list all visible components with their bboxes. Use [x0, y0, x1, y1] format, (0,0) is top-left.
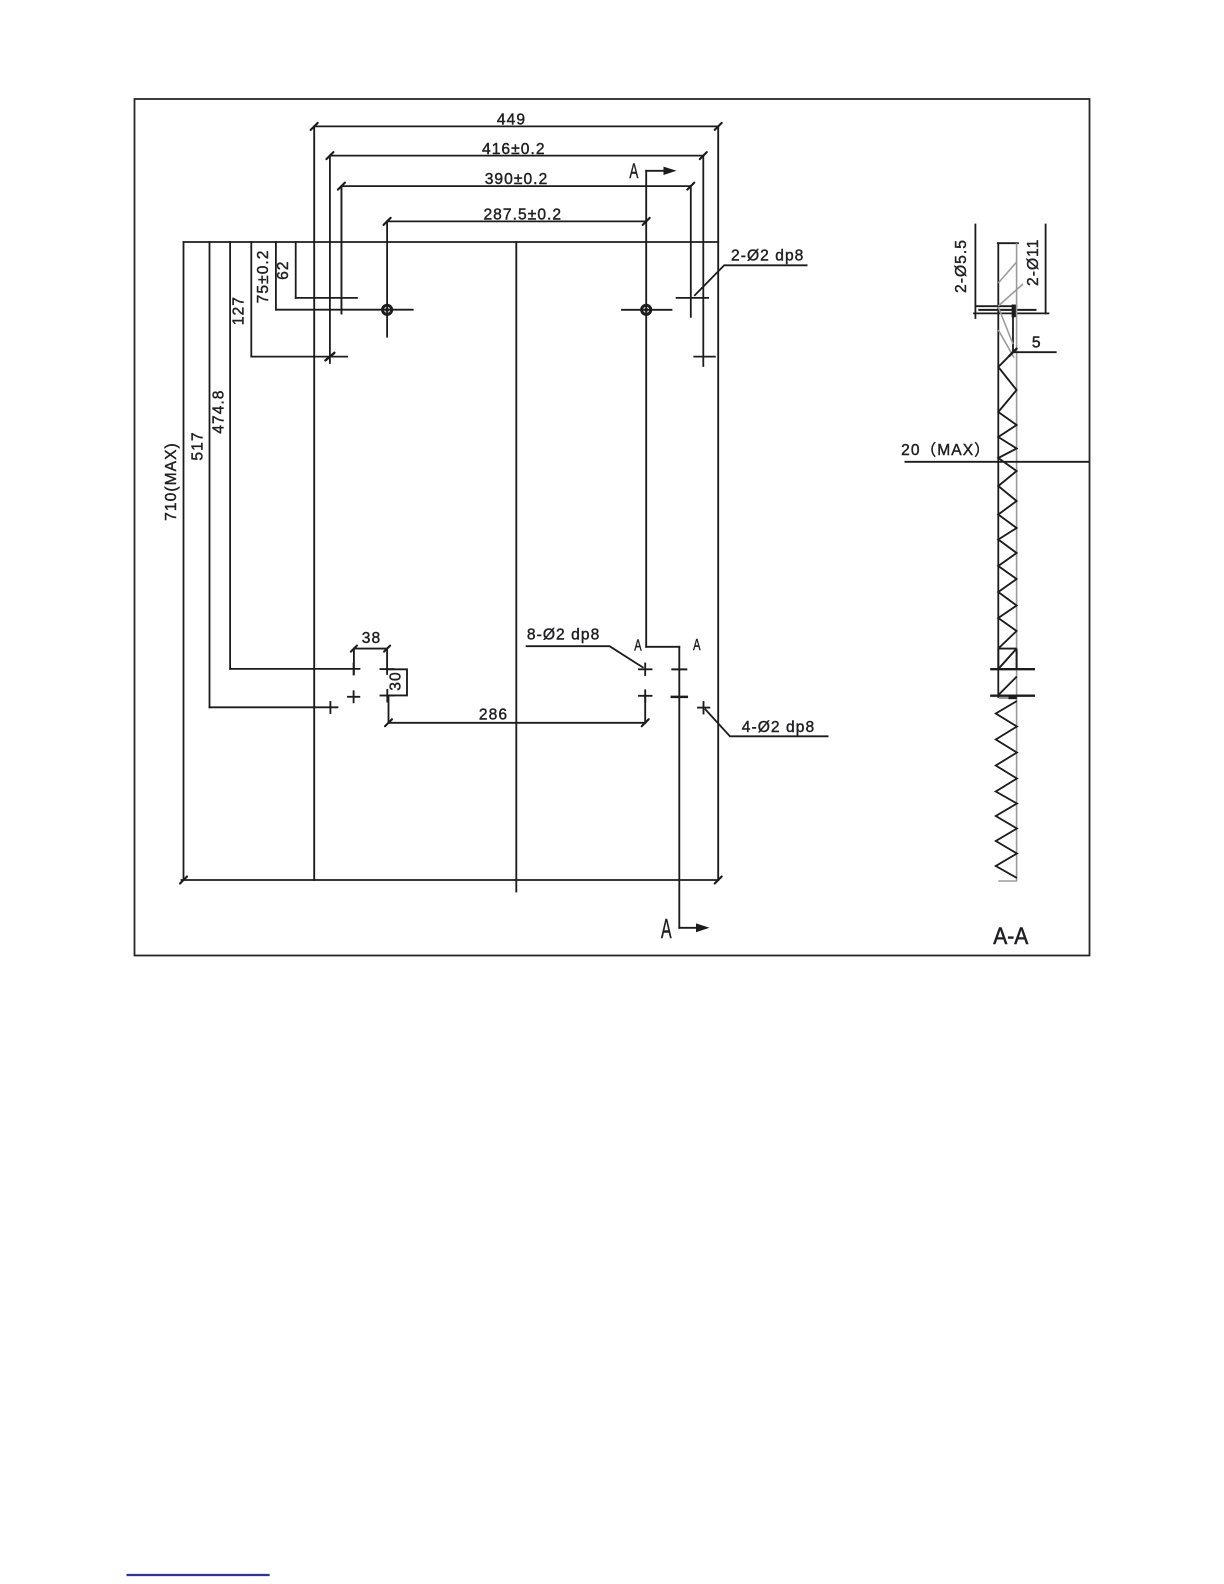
dark bar below lower hole row — [1009, 696, 1017, 699]
part right edge + 449 extension — [717, 126, 719, 880]
section line bottom arrow stem — [679, 927, 701, 929]
right hole crosshair horizontal — [622, 309, 672, 311]
svg-text:20（MAX）: 20（MAX） — [901, 442, 991, 459]
tick 38 left — [351, 646, 357, 652]
tick 449 right — [715, 123, 722, 130]
block right edge — [1016, 649, 1018, 670]
leader 8-Ø2dp8 — [526, 646, 644, 668]
section line jog — [646, 646, 679, 648]
svg-text:2-Ø11: 2-Ø11 — [1025, 239, 1042, 286]
dim 449 line — [314, 125, 718, 127]
cross hole cluster top-left vertical arm — [353, 664, 355, 675]
section line lower vertical — [678, 647, 680, 928]
hole right center dot — [644, 308, 648, 312]
plate bottom cap gray — [998, 880, 1017, 882]
dim 474.8 line — [229, 242, 231, 669]
dim 390 line — [341, 185, 690, 187]
hole cross 416-right horizontal arm — [694, 356, 715, 358]
cross on section line lower — [672, 696, 687, 699]
svg-text:2-Ø2 dp8: 2-Ø2 dp8 — [731, 247, 804, 264]
dim 20(MAX) line — [905, 461, 1090, 463]
plate top cap — [998, 242, 1018, 244]
block left edge — [997, 649, 999, 670]
svg-text:4-Ø2 dp8: 4-Ø2 dp8 — [742, 719, 815, 736]
dim 287.5 line — [387, 220, 646, 222]
tick 416 right — [700, 152, 707, 159]
tick bottom-right corner — [715, 877, 722, 884]
tick 390 right — [687, 183, 694, 190]
hole cross 390-left — [340, 186, 342, 313]
cross hole 4dp8 right — [703, 702, 705, 714]
svg-text:286: 286 — [479, 707, 508, 724]
tick at 416/127 hole — [325, 353, 334, 361]
dim 2-Ø11 extension — [1045, 225, 1047, 314]
svg-text:287.5±0.2: 287.5±0.2 — [483, 206, 562, 223]
svg-text:416±0.2: 416±0.2 — [482, 141, 546, 158]
countersunk hole left circle — [383, 305, 392, 314]
dim 2-Ø5.5 extension — [974, 225, 976, 319]
dim 390 left extension — [340, 186, 342, 313]
dim 710(MAX) line — [183, 242, 185, 880]
svg-text:A: A — [693, 637, 701, 654]
tick 449 left — [311, 123, 318, 130]
svg-text:62: 62 — [275, 260, 292, 279]
svg-text:390±0.2: 390±0.2 — [485, 171, 549, 188]
countersink gray diagonal 2 — [998, 262, 1016, 283]
dim 62 connector — [296, 297, 357, 299]
part top edge — [184, 241, 719, 243]
dim 62 line — [295, 242, 297, 298]
dim 75 line — [275, 242, 277, 310]
dim 517 line — [209, 242, 211, 707]
svg-text:5: 5 — [1032, 335, 1042, 352]
svg-text:2-Ø5.5: 2-Ø5.5 — [953, 239, 970, 293]
fastener dark square — [1012, 305, 1017, 318]
svg-text:449: 449 — [497, 112, 526, 129]
tick 390 left — [338, 183, 345, 190]
gray bar left part — [999, 697, 1009, 699]
upper zigzag hatch — [998, 352, 1016, 648]
hole left center dot — [385, 308, 389, 312]
svg-text:127: 127 — [231, 296, 248, 325]
svg-text:75±0.2: 75±0.2 — [255, 249, 272, 303]
svg-text:517: 517 — [190, 431, 207, 460]
countersink gray diagonal 1 — [998, 284, 1023, 306]
dim 286 left extension — [388, 696, 390, 723]
footer blue line — [127, 1574, 270, 1576]
dim 286 line — [389, 722, 646, 724]
dim 30 bracket — [387, 669, 407, 695]
cross hole cluster top-right horizontal arm — [381, 668, 394, 670]
countersunk hole right circle — [642, 305, 651, 314]
tick 287.5 right — [643, 218, 650, 225]
cross hole mid-right bottom horizontal arm — [639, 695, 652, 697]
countersink line A — [975, 305, 1016, 307]
leader 2-Ø2dp8 — [694, 265, 807, 296]
dim 416 right extension — [702, 156, 704, 366]
svg-text:A-A: A-A — [993, 923, 1028, 950]
top arrow head — [664, 167, 677, 175]
section line upper vertical — [645, 171, 647, 647]
tick 286 left — [385, 719, 392, 726]
leader 4-Ø2dp8 — [705, 709, 829, 736]
svg-text:30: 30 — [387, 671, 404, 690]
dim 416 line — [330, 155, 703, 157]
inner hole wall vertical — [1012, 317, 1014, 352]
tick 287.5 left — [384, 218, 391, 225]
plate right edge gray — [1016, 243, 1018, 881]
svg-text:A: A — [634, 637, 642, 654]
cross hole cluster bottom-left — [353, 691, 355, 702]
block diagonal lower — [998, 677, 1016, 696]
svg-text:A: A — [661, 913, 672, 944]
part left edge + 449 extension — [313, 126, 315, 880]
svg-text:38: 38 — [362, 630, 381, 647]
tick 5 dim — [1010, 349, 1017, 356]
dim 390 right extension — [690, 186, 692, 317]
dim 416 left extension — [329, 156, 331, 363]
svg-text:474.8: 474.8 — [210, 389, 227, 433]
dim 38 bracket — [354, 649, 387, 674]
vertical centerline — [515, 242, 517, 892]
svg-text:710(MAX): 710(MAX) — [163, 442, 180, 521]
plate left edge — [997, 243, 999, 697]
svg-text:A: A — [629, 160, 638, 183]
svg-text:8-Ø2 dp8: 8-Ø2 dp8 — [527, 627, 600, 644]
tick 286 right — [642, 719, 649, 726]
block top line — [998, 648, 1016, 650]
countersink line B — [979, 309, 1035, 311]
dim 287.5 left extension through hole — [386, 221, 388, 336]
lower zigzag hatch — [996, 701, 1017, 878]
part bottom edge — [182, 879, 719, 881]
dim 127 connector — [251, 356, 347, 358]
countersink line C — [974, 312, 1049, 314]
dim 517 connector — [210, 706, 338, 708]
countersink gray diagonal 3 — [998, 307, 1013, 344]
countersink gray diagonal 4 — [998, 330, 1014, 358]
dim 286 right extension — [644, 696, 646, 723]
hole row upper line — [990, 668, 1035, 670]
hole cross 390-right horizontal arm — [677, 297, 709, 299]
bottom arrow head — [696, 923, 710, 932]
tick bottom-left corner — [180, 877, 187, 884]
block diagonal — [998, 649, 1016, 669]
hole row lower line — [990, 695, 1035, 697]
dim 474.8 connector — [230, 668, 359, 670]
section line top arrow stem — [646, 170, 670, 172]
cross on section line upper — [672, 668, 686, 670]
cross hole 517 — [329, 702, 331, 713]
tick 416 left — [326, 152, 333, 159]
dim 75 connector through hole — [276, 309, 413, 311]
tick 38 right — [384, 646, 390, 652]
cross hole cluster bottom-right arms — [381, 695, 394, 697]
dim 127 line — [250, 242, 252, 357]
border frame — [135, 99, 1090, 956]
dim 5 leader — [1013, 351, 1057, 353]
cross hole mid-right top — [644, 664, 646, 676]
